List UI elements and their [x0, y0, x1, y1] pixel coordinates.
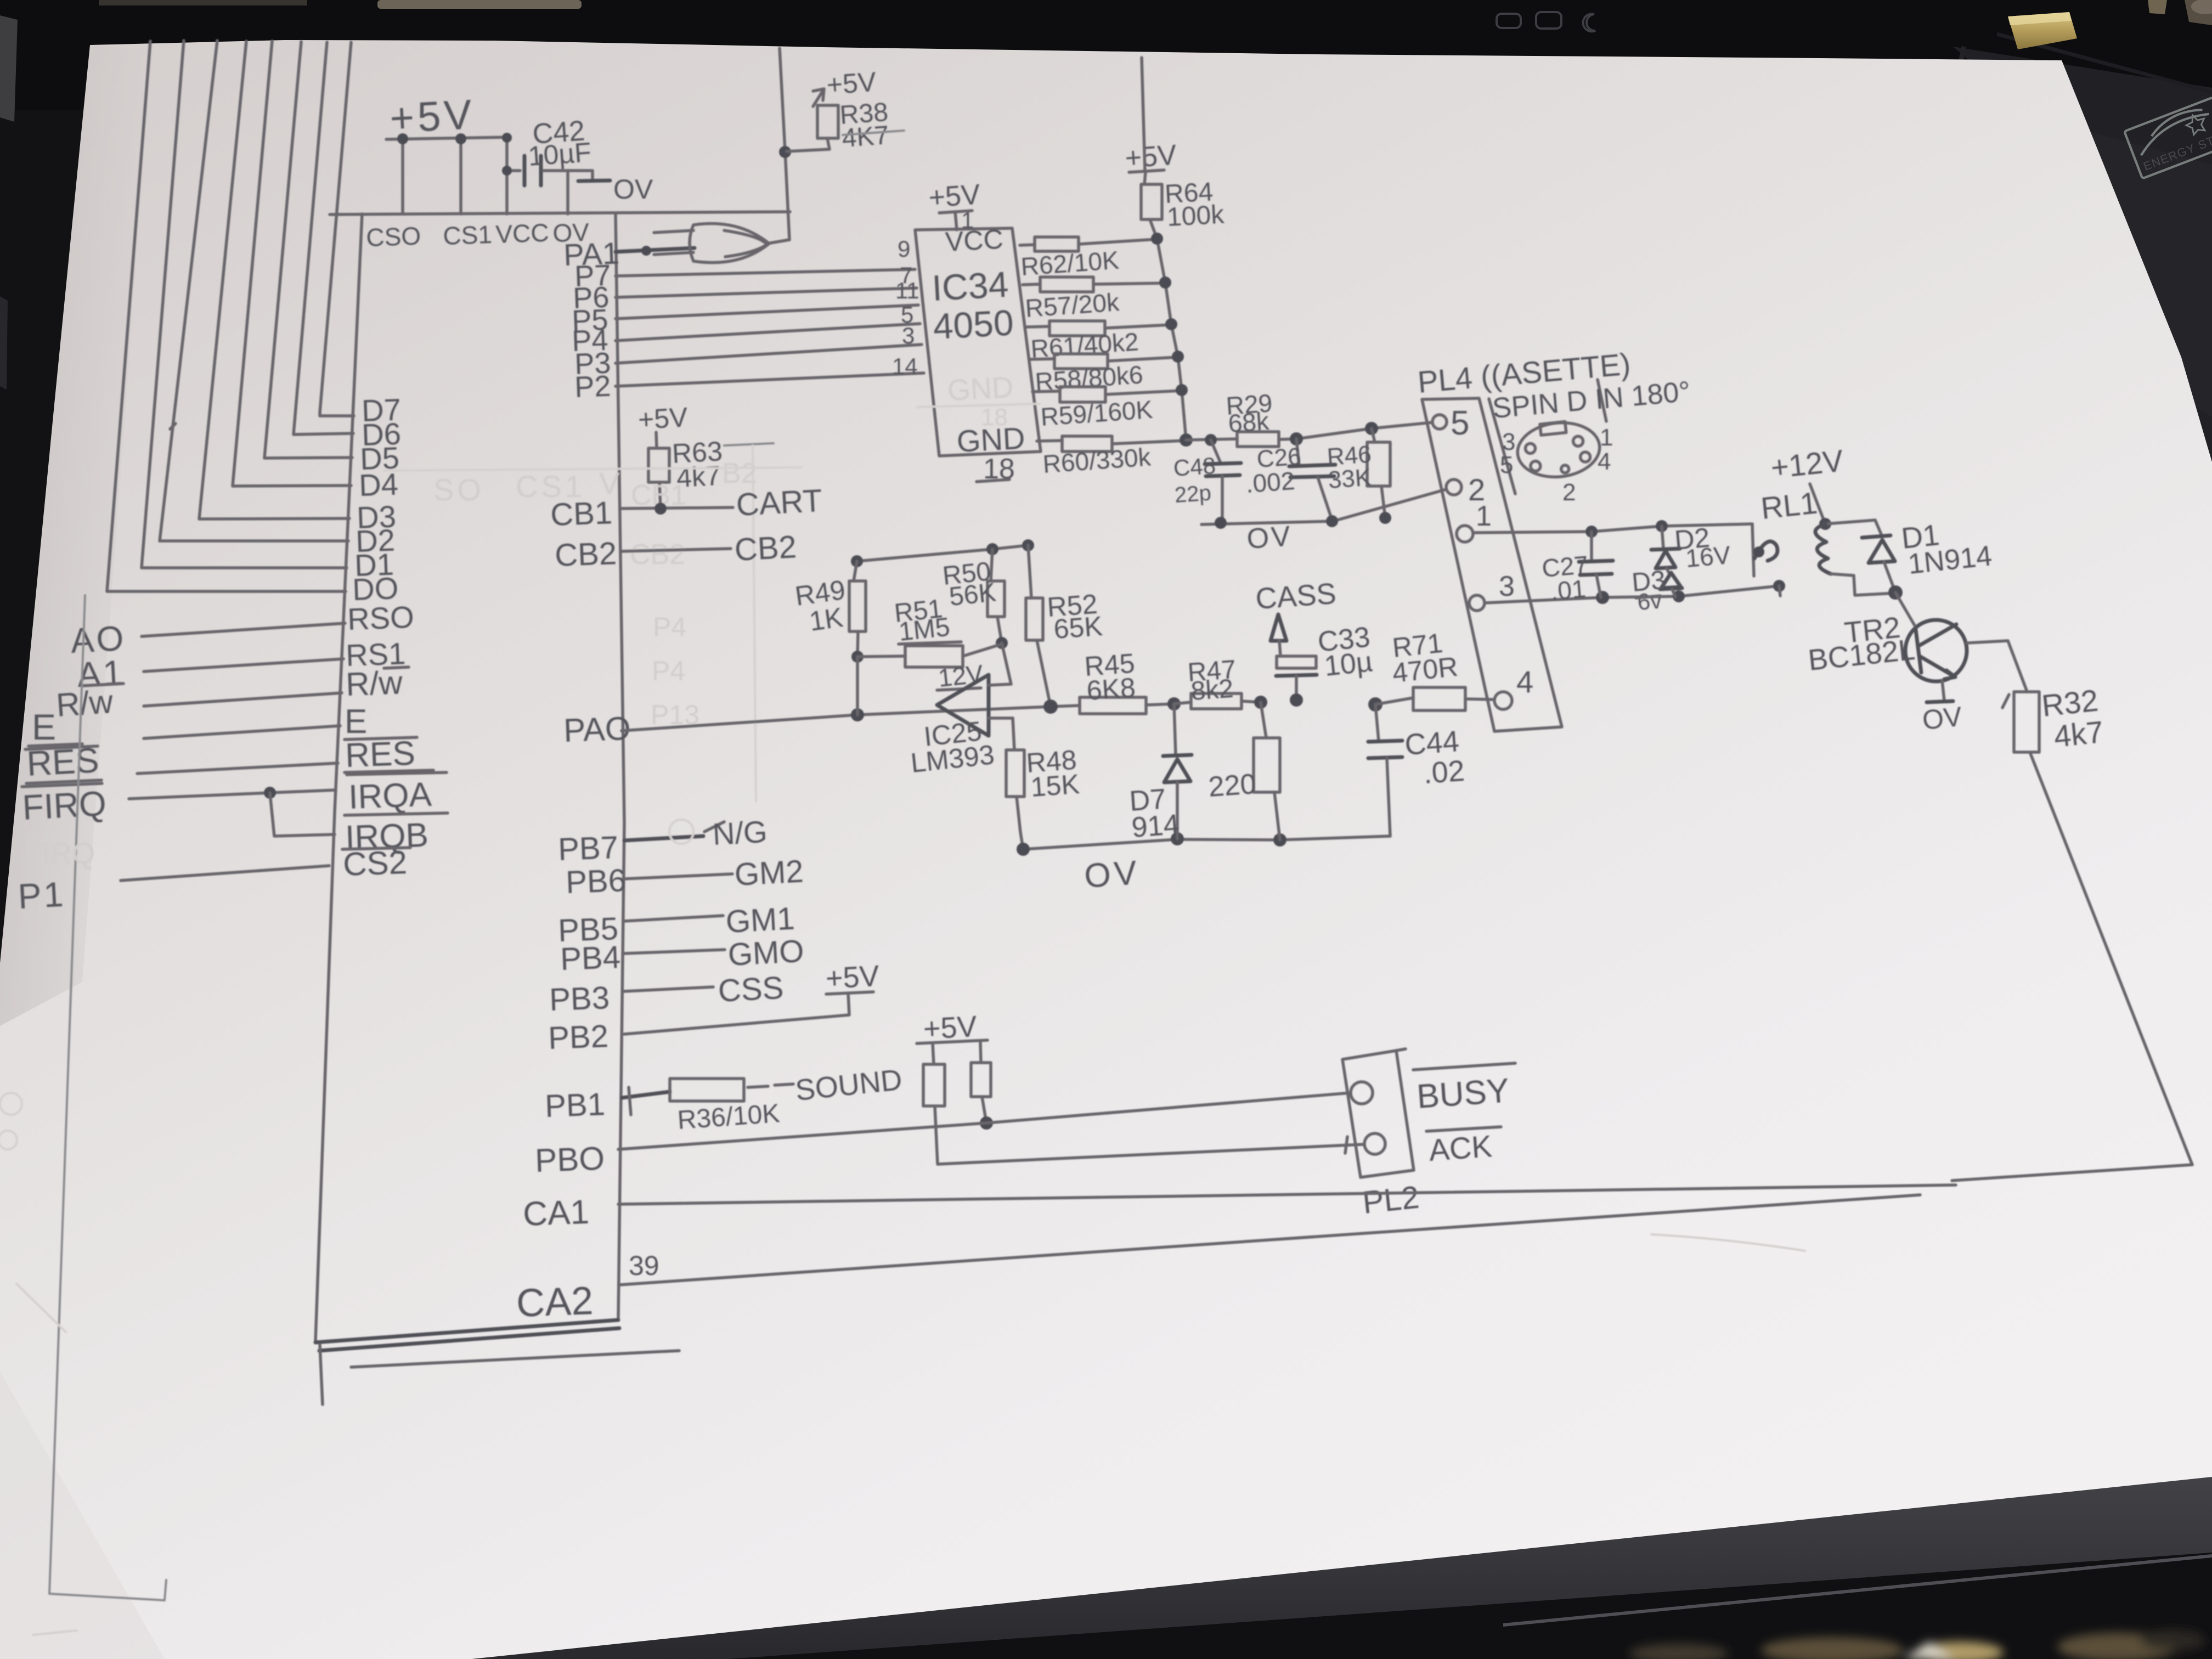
wire PB4 [624, 950, 725, 953]
bezel edge faint lines top right [1923, 47, 1964, 236]
svg-text:CS1: CS1 [443, 220, 493, 250]
svg-text:P1: P1 [17, 874, 66, 916]
svg-text:8k2: 8k2 [1190, 674, 1234, 706]
paper left edge shade [0, 0, 1, 1]
ladder vertical wire [1150, 219, 1186, 440]
op-amp top rail [857, 545, 1028, 561]
resistor R49 [854, 561, 857, 581]
ghost circles left [0, 1093, 22, 1115]
svg-text:1: 1 [1476, 500, 1492, 532]
wire PB7 [624, 836, 703, 840]
bezel lighter region right of paper [1953, 47, 2212, 494]
svg-text:CART: CART [735, 483, 823, 523]
svg-text:15K: 15K [1030, 769, 1081, 803]
svg-text:PB7: PB7 [557, 830, 619, 867]
svg-text:GM2: GM2 [733, 853, 804, 892]
svg-text:PB3: PB3 [549, 980, 610, 1018]
resistor pull-up 2 [980, 1042, 981, 1063]
svg-text:33K: 33K [1327, 464, 1372, 494]
pin 1 circle [1457, 526, 1473, 542]
+5V rail wire [386, 137, 509, 139]
capacitor C48 [1211, 440, 1221, 463]
relay RL1 contact [1752, 524, 1754, 576]
svg-text:10µ: 10µ [1323, 646, 1374, 682]
+5V arrow label for R38 [813, 89, 824, 106]
resistor R32 [2014, 692, 2039, 752]
data bus D2 wire [160, 41, 348, 541]
svg-text:+5V: +5V [826, 66, 878, 100]
svg-text:+5V: +5V [1124, 139, 1178, 174]
wire PBO to BUSY [618, 1093, 1351, 1149]
resistor R71 [1375, 698, 1413, 704]
svg-text:.01: .01 [1549, 574, 1587, 606]
svg-text:10µF: 10µF [527, 137, 592, 172]
svg-text:CB1: CB1 [550, 495, 613, 533]
wire pin5 [1279, 422, 1432, 439]
resistor pull-up 1 [933, 1043, 934, 1064]
transistor TR2 [1905, 620, 1967, 681]
wire RES [137, 763, 338, 774]
resistor R52 [1028, 545, 1031, 598]
svg-text:22p: 22p [1174, 481, 1212, 507]
wire E [144, 726, 340, 738]
node R49 bottom rail [851, 708, 864, 721]
ENERGY STAR logo [2124, 96, 2212, 178]
data bus D7 wire [320, 42, 354, 416]
capacitor C33 [1277, 656, 1316, 668]
svg-text:E: E [345, 703, 367, 741]
svg-text:5: 5 [1451, 404, 1469, 442]
svg-text:FIRQ: FIRQ [21, 783, 107, 827]
svg-text:E: E [32, 707, 56, 747]
svg-text:ACK: ACK [1427, 1128, 1493, 1167]
wire CA1 long [618, 1185, 1956, 1204]
resistor R48 [1013, 718, 1014, 750]
wire P5 [616, 305, 918, 319]
svg-text:56K: 56K [948, 578, 997, 612]
wire PB2 to +5V [624, 993, 849, 1034]
bottom right metallic blur [1629, 1629, 2205, 1659]
svg-text:16V: 16V [1684, 540, 1731, 573]
resistor R59 [1032, 391, 1060, 392]
svg-text:GND: GND [946, 371, 1014, 407]
svg-text:CB2: CB2 [733, 529, 797, 568]
resistor R50 [991, 549, 992, 581]
left bezel gray patch [0, 15, 18, 122]
svg-text:CSS: CSS [717, 970, 785, 1009]
svg-text:5: 5 [1500, 452, 1513, 478]
resistor R46 [1372, 428, 1375, 442]
wire P7 [616, 269, 915, 276]
svg-text:IC34: IC34 [931, 264, 1009, 308]
data bus D4 wire [233, 41, 351, 486]
wire P6 [616, 288, 917, 297]
wire CA2 long [619, 1195, 1920, 1285]
svg-text:OV: OV [1083, 854, 1141, 895]
svg-text:3: 3 [902, 323, 915, 348]
svg-text:PL2: PL2 [1361, 1179, 1421, 1220]
resistor R60 [1037, 441, 1062, 441]
pin 3 circle [1469, 595, 1485, 611]
svg-text:4K7: 4K7 [841, 121, 890, 153]
wire FIRQ to IRQA [129, 790, 336, 799]
resistor R62 [1020, 245, 1035, 245]
wire P3 [616, 345, 922, 363]
svg-text:N/G: N/G [712, 814, 768, 851]
svg-text:.002: .002 [1245, 466, 1296, 498]
wire PAO rail [622, 706, 1080, 731]
capacitor C27 [1590, 532, 1593, 561]
diode D7 [1174, 704, 1176, 755]
svg-text:+5V: +5V [825, 960, 880, 995]
wire PB3 [624, 987, 713, 991]
resistor R61 [1026, 326, 1049, 327]
resistor R36 [670, 1079, 744, 1101]
svg-text:9: 9 [898, 236, 910, 262]
wire PA1 to OR gate [616, 248, 695, 252]
svg-text:3: 3 [1499, 571, 1515, 602]
svg-text:CA2: CA2 [516, 1279, 594, 1325]
svg-text:6v: 6v [1637, 587, 1663, 615]
ghost header line [384, 467, 801, 471]
svg-text:39: 39 [629, 1250, 659, 1281]
svg-text:B2: B2 [722, 458, 757, 489]
wire VCC drop [505, 138, 509, 214]
svg-text:P4: P4 [652, 656, 685, 686]
data bus D0 wire [107, 41, 346, 591]
svg-text:RSO: RSO [347, 600, 414, 636]
svg-text:11: 11 [895, 278, 919, 303]
zener D2 [1662, 526, 1663, 549]
resistor R29 [1186, 439, 1237, 440]
left margin line [49, 595, 166, 1600]
wire P1 to CS2 [121, 866, 329, 881]
resistor R58 [1029, 359, 1054, 359]
resistor R45 [1080, 697, 1146, 714]
pin 2 circle [1446, 479, 1462, 495]
faint scratch mark [1651, 1234, 1805, 1251]
wire ACK [938, 1144, 1363, 1164]
PL2 pin ACK [1364, 1133, 1385, 1154]
svg-text:6K8: 6K8 [1086, 672, 1137, 706]
svg-text:IRQA: IRQA [348, 776, 433, 816]
diode D1 [1875, 520, 1882, 535]
svg-text:CA1: CA1 [522, 1193, 590, 1233]
svg-text:SO: SO [433, 472, 484, 507]
CASS arrow [1271, 614, 1286, 641]
data bus D5 wire [264, 42, 352, 458]
wire PB1 [622, 1092, 670, 1098]
resistor 220 [1254, 696, 1267, 709]
svg-text:220: 220 [1207, 768, 1257, 803]
capacitor C26 [1296, 439, 1299, 465]
svg-text:D4: D4 [358, 467, 399, 503]
capacitor C44 [1368, 697, 1383, 712]
svg-text:P4: P4 [653, 612, 686, 642]
label N/G [704, 822, 724, 832]
wire P4 [616, 324, 920, 341]
PL2 pin BUSY [1351, 1082, 1373, 1104]
svg-text:FIRQ: FIRQ [24, 837, 95, 870]
svg-text:65K: 65K [1053, 611, 1104, 645]
pin 5 circle [1432, 415, 1447, 429]
IC34 4050 body [915, 228, 1041, 456]
ghost line column [753, 445, 756, 801]
relay RL1 coil [1810, 484, 1825, 524]
connector PL2 body [1342, 1051, 1414, 1177]
node FIRQ junction [264, 787, 276, 799]
wire CS1 drop [459, 139, 462, 214]
wire junction to IRQB [270, 793, 335, 836]
svg-text:1K: 1K [808, 602, 845, 637]
svg-text:BUSY: BUSY [1415, 1071, 1510, 1116]
wire CB1 to CART [620, 507, 733, 509]
svg-text:PAO: PAO [563, 710, 631, 749]
diode D3 [1661, 573, 1681, 588]
hinge tan strip top-left [377, 0, 582, 9]
svg-text:14: 14 [892, 353, 918, 379]
svg-text:4050: 4050 [932, 302, 1014, 347]
resistor R38 [817, 105, 838, 138]
data bus D1 wire [142, 41, 347, 568]
svg-text:RL1: RL1 [1759, 486, 1819, 526]
resistor R63 [648, 448, 669, 482]
node R38 junction [779, 146, 791, 158]
wire pin1 [1473, 524, 1752, 533]
svg-text:OV: OV [1921, 701, 1963, 736]
svg-text:R/w: R/w [345, 664, 403, 703]
wire PB5 [624, 916, 723, 921]
svg-text:OV: OV [1246, 520, 1294, 555]
resistor R47 [1174, 702, 1191, 704]
resistor R64 [1141, 184, 1162, 219]
capacitor C42 [502, 156, 592, 185]
svg-text:CSO: CSO [366, 222, 421, 252]
wire PB6 [624, 874, 732, 879]
op-amp IC25 LM393 [937, 675, 989, 736]
svg-text:4k7: 4k7 [2052, 714, 2105, 754]
ground OV under TR2 [1927, 701, 1953, 702]
svg-text:CB2: CB2 [630, 539, 685, 571]
wire R/W [144, 693, 342, 706]
resistor R57 [1023, 284, 1040, 285]
svg-text:R/w: R/w [55, 683, 114, 724]
resistor R51 [857, 656, 905, 657]
svg-text:914: 914 [1131, 809, 1181, 844]
wire A1 to RS1 [144, 659, 343, 672]
bezel icons [1497, 12, 1595, 31]
svg-text:C48: C48 [1172, 453, 1216, 481]
wire +5V to VCC pin [955, 212, 957, 230]
svg-text:GMO: GMO [727, 933, 805, 973]
svg-text:PB6: PB6 [565, 862, 627, 900]
svg-text:VCC: VCC [495, 218, 550, 249]
wire CSO drop [401, 139, 404, 214]
svg-text:RES: RES [345, 735, 416, 775]
svg-text:CB2: CB2 [554, 535, 617, 573]
DIN connector sketch [1515, 418, 1602, 481]
svg-text:PB4: PB4 [560, 939, 621, 977]
svg-text:PBO: PBO [534, 1140, 605, 1179]
stray pencil tick [170, 424, 176, 429]
svg-text:VCC: VCC [945, 224, 1004, 257]
wire A0 to RS0 [142, 623, 345, 636]
wire P2 [616, 373, 924, 386]
svg-text:PB1: PB1 [544, 1086, 606, 1124]
svg-text:CASS: CASS [1255, 577, 1338, 616]
svg-text:.02: .02 [1423, 754, 1466, 790]
svg-text:68k: 68k [1227, 407, 1271, 438]
OR gate [654, 224, 769, 263]
bottom laptop band under paper [439, 1475, 2212, 1659]
wire from top edge to OR gate (R38 net) [767, 48, 789, 244]
svg-text:OV: OV [613, 174, 653, 205]
svg-text:4: 4 [1516, 664, 1533, 699]
svg-text:PB2: PB2 [548, 1018, 609, 1056]
gold hinge right [2008, 12, 2077, 49]
svg-text:+5V: +5V [637, 402, 689, 435]
data bus D3 wire [199, 41, 349, 519]
connector PL4 body [1422, 398, 1562, 731]
wire OV pin drop [566, 171, 569, 214]
wire pin3 [1485, 586, 1779, 603]
ghost circle on PB7 [669, 820, 693, 844]
node dots on +5V rail [397, 133, 408, 144]
data bus D6 wire [294, 42, 353, 435]
OV rail middle [1023, 836, 1390, 849]
OV rail right [1201, 489, 1446, 524]
svg-text:100k: 100k [1166, 200, 1226, 232]
wire CB2 [620, 549, 731, 551]
svg-text:4: 4 [1598, 448, 1611, 475]
svg-text:1: 1 [1600, 424, 1613, 451]
svg-text:P2: P2 [574, 370, 611, 404]
IC PIA (6821) body [315, 212, 790, 1404]
ground OV symbol [591, 171, 594, 180]
svg-text:2: 2 [1562, 479, 1576, 506]
